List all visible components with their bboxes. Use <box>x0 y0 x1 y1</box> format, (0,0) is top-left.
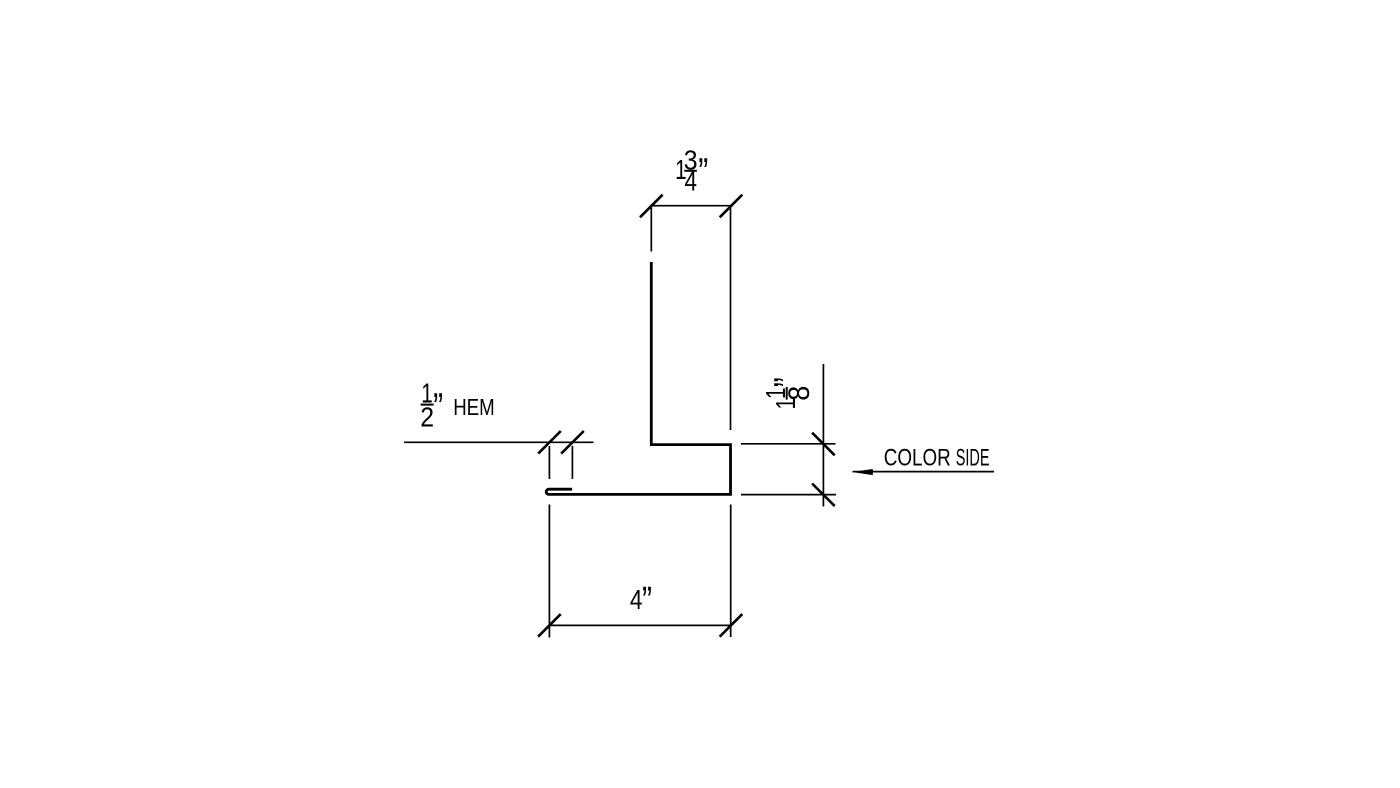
svg-text:”: ” <box>642 579 652 623</box>
svg-text:2: 2 <box>420 401 434 432</box>
svg-text:4: 4 <box>685 166 698 197</box>
svg-text:COLOR: COLOR <box>884 445 951 472</box>
svg-text:”: ” <box>698 151 708 195</box>
svg-text:HEM: HEM <box>453 394 495 420</box>
svg-text:”: ” <box>433 385 443 429</box>
svg-text:SIDE: SIDE <box>956 445 990 472</box>
svg-text:4: 4 <box>630 584 643 615</box>
svg-text:”: ” <box>767 377 811 387</box>
